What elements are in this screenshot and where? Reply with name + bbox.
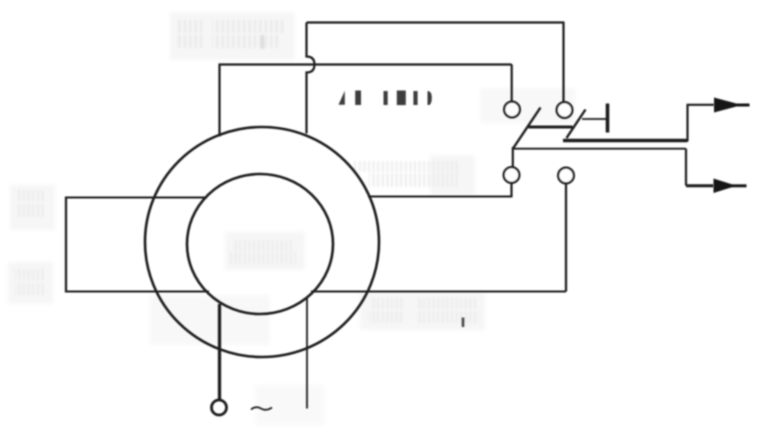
faded label left-top [17, 190, 45, 217]
switch coupling bar [529, 126, 573, 129]
wire up leg to top arrow [686, 105, 688, 142]
arrow tail line top [735, 104, 750, 107]
motor rotor inner circle [187, 174, 333, 314]
wire down leg to bottom arrow [685, 149, 687, 186]
wire left loop vertical edge [65, 197, 67, 293]
faded label left-bottom [15, 269, 46, 295]
switch contact upper-right [557, 102, 573, 118]
wire rotor lead right [306, 297, 308, 409]
dark text fragment bar4 [413, 91, 417, 105]
wire to bottom arrow [686, 184, 714, 187]
terminal circle [212, 400, 227, 415]
switch contact upper-left [504, 102, 520, 118]
wire lever left junction down to contact [512, 147, 514, 168]
actuator bar [606, 104, 610, 133]
motor stator outer circle [145, 127, 379, 357]
switch contact lower-left [504, 167, 520, 183]
wire rotor lead left (thick) [218, 304, 221, 400]
wire upper loop horizontal right segment to switch [368, 196, 513, 198]
wire thick output upper [563, 139, 688, 142]
dark text fragment hook [428, 91, 432, 105]
wire vertical with hop over second horizontal [307, 23, 315, 134]
wire drop to upper-right contact [562, 22, 564, 102]
switch lever right pole [567, 110, 586, 139]
wire drop to upper-left contact [511, 65, 513, 102]
dark text fragment bar2 [384, 91, 388, 105]
dark tick lower-middle [462, 318, 465, 328]
switch lever left pole [513, 108, 541, 149]
wire lower loop horizontal left segment [65, 291, 209, 293]
link to actuator [582, 118, 607, 120]
wire vertical left winding lead [218, 65, 220, 137]
faded label lower-middle [369, 298, 479, 323]
arrow tail line bottom [730, 184, 747, 187]
wire second horizontal [219, 63, 512, 65]
switch contact lower-right [558, 168, 574, 184]
arrow head bottom output [714, 179, 737, 194]
wire top horizontal [307, 21, 564, 23]
arrow head top output [714, 98, 742, 113]
faded label mid-right two rows [353, 161, 460, 187]
dark text fragment triangle [339, 91, 345, 105]
dark text fragment bar3 [397, 91, 406, 106]
wire thin output lower [513, 148, 686, 150]
dark text fragment bar1 [355, 91, 361, 106]
wire riser to lower-right contact [565, 184, 567, 292]
scan mottling patches [8, 12, 575, 425]
faded label inside rotor [230, 240, 296, 264]
wire upper loop horizontal left segment [65, 197, 207, 199]
wire lower loop horizontal right segment [311, 291, 566, 293]
wire riser to lower-left contact [510, 183, 512, 197]
faded label top-center [176, 20, 284, 49]
tilde AC mark [251, 407, 272, 410]
wire to top arrow [687, 104, 715, 106]
